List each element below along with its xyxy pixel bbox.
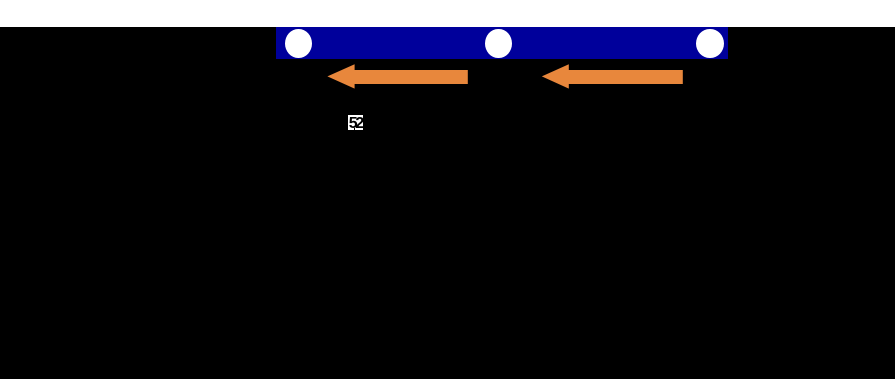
label descender notch [354, 128, 355, 130]
arrow left [327, 64, 467, 88]
label text 52 [349, 118, 362, 130]
arrow right [542, 64, 683, 88]
white header strip [0, 0, 895, 27]
timeline bar [276, 27, 728, 59]
node circle right [696, 29, 724, 59]
label chip [348, 115, 363, 130]
node circle left [285, 29, 312, 59]
node circle middle [485, 29, 512, 59]
